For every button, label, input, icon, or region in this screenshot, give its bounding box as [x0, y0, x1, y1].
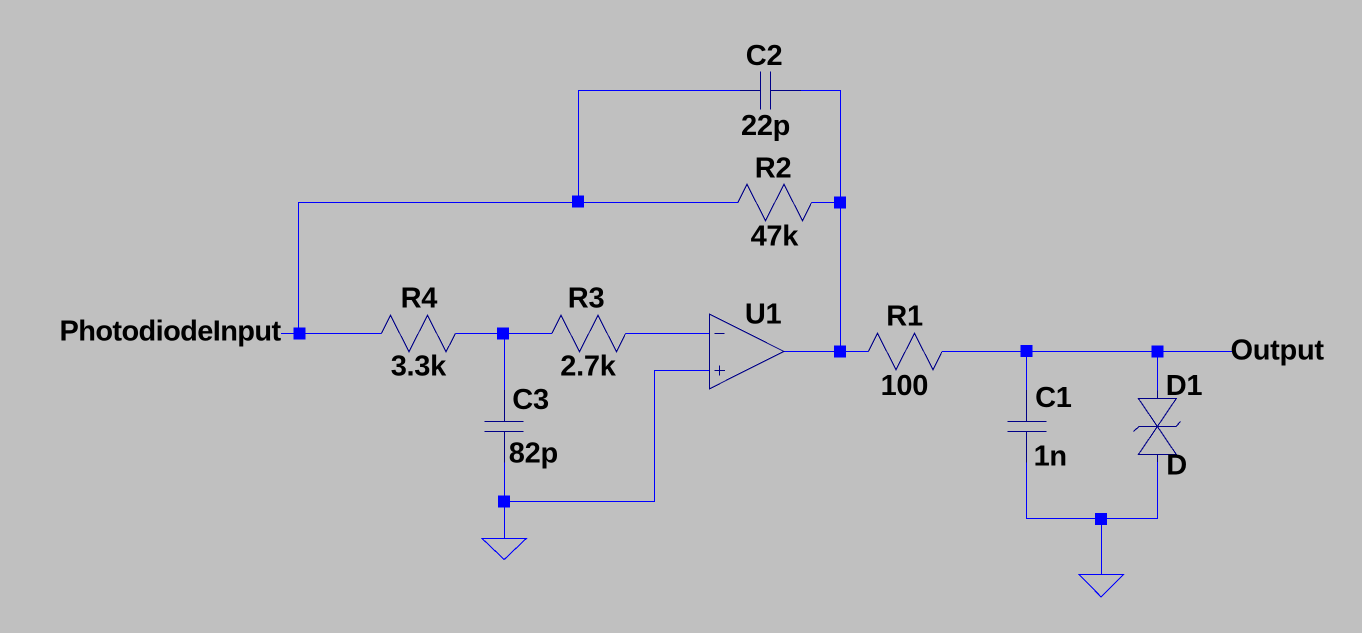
resistor R2 — [738, 184, 812, 221]
node C3 bottom junction — [498, 495, 510, 507]
svg-text:R4: R4 — [401, 283, 438, 315]
svg-text:82p: 82p — [509, 438, 558, 470]
svg-text:2.7k: 2.7k — [560, 350, 616, 382]
wire C3 node to riser — [504, 501, 655, 503]
svg-text:22p: 22p — [741, 110, 790, 142]
wire C1 lower vertical — [1026, 462, 1028, 519]
wire right rail vertical — [840, 90, 842, 352]
resistor R4 — [382, 315, 456, 352]
node R4-R3 junction — [497, 328, 509, 340]
wire R2 right lead to rail — [812, 202, 842, 204]
wire top-left C2 branch horizontal — [578, 90, 741, 92]
svg-text:100: 100 — [881, 370, 929, 402]
node R2 right junction — [834, 197, 846, 209]
svg-text:D1: D1 — [1166, 370, 1203, 402]
wire R4 to R3 — [456, 333, 553, 335]
resistor R3 — [552, 315, 626, 352]
wire input to R4 — [296, 333, 382, 335]
op-amp U1 — [710, 314, 784, 389]
wire feedback horizontal — [298, 202, 739, 204]
svg-text:R1: R1 — [886, 301, 923, 333]
node ground bus junction — [1095, 513, 1107, 525]
wire D1 upper vertical — [1157, 351, 1159, 391]
wire C3 upper vertical — [504, 334, 506, 392]
wire vertical left of C2 loop — [578, 90, 580, 203]
svg-text:U1: U1 — [745, 298, 782, 330]
node D1 top junction — [1151, 346, 1163, 358]
wire C3 lower vertical — [504, 462, 506, 501]
wire C1 upper vertical — [1026, 351, 1028, 391]
capacitor C1 — [1008, 390, 1047, 463]
capacitor C3 — [485, 390, 524, 463]
svg-text:Output: Output — [1231, 335, 1325, 367]
svg-text:R2: R2 — [755, 153, 791, 185]
ground (C3 node) — [482, 506, 526, 560]
svg-text:C1: C1 — [1035, 382, 1072, 414]
svg-text:PhotodiodeInput: PhotodiodeInput — [60, 316, 282, 348]
wire D1 lower vertical — [1157, 461, 1159, 519]
svg-text:R3: R3 — [568, 283, 605, 315]
wire R3 to op-amp inverting input — [626, 333, 710, 335]
ground (output filter) — [1079, 524, 1123, 597]
svg-text:D: D — [1166, 449, 1187, 481]
diode D1 — [1134, 391, 1181, 463]
capacitor C2 — [740, 72, 801, 110]
node feedback tap junction — [572, 196, 584, 208]
resistor R1 — [869, 333, 943, 370]
wire top-right C2 branch horizontal — [801, 90, 841, 92]
wire bottom ground bus — [1026, 518, 1158, 520]
svg-text:47k: 47k — [751, 221, 800, 253]
wire PhotodiodeInput stub — [281, 333, 296, 335]
node op-amp output junction — [834, 346, 846, 358]
svg-text:1n: 1n — [1034, 441, 1067, 473]
svg-text:C2: C2 — [746, 40, 782, 72]
wire riser to noninverting input — [654, 370, 656, 501]
svg-text:C3: C3 — [512, 384, 549, 416]
wire op-amp output — [784, 351, 869, 353]
node PhotodiodeInput junction — [294, 328, 306, 340]
wire left vertical from feedback to input — [298, 202, 300, 334]
wire op-amp noninverting input horizontal — [654, 370, 710, 372]
node C1 top junction — [1021, 345, 1033, 357]
wire R1 to Output — [942, 351, 1233, 353]
svg-text:3.3k: 3.3k — [391, 350, 447, 382]
